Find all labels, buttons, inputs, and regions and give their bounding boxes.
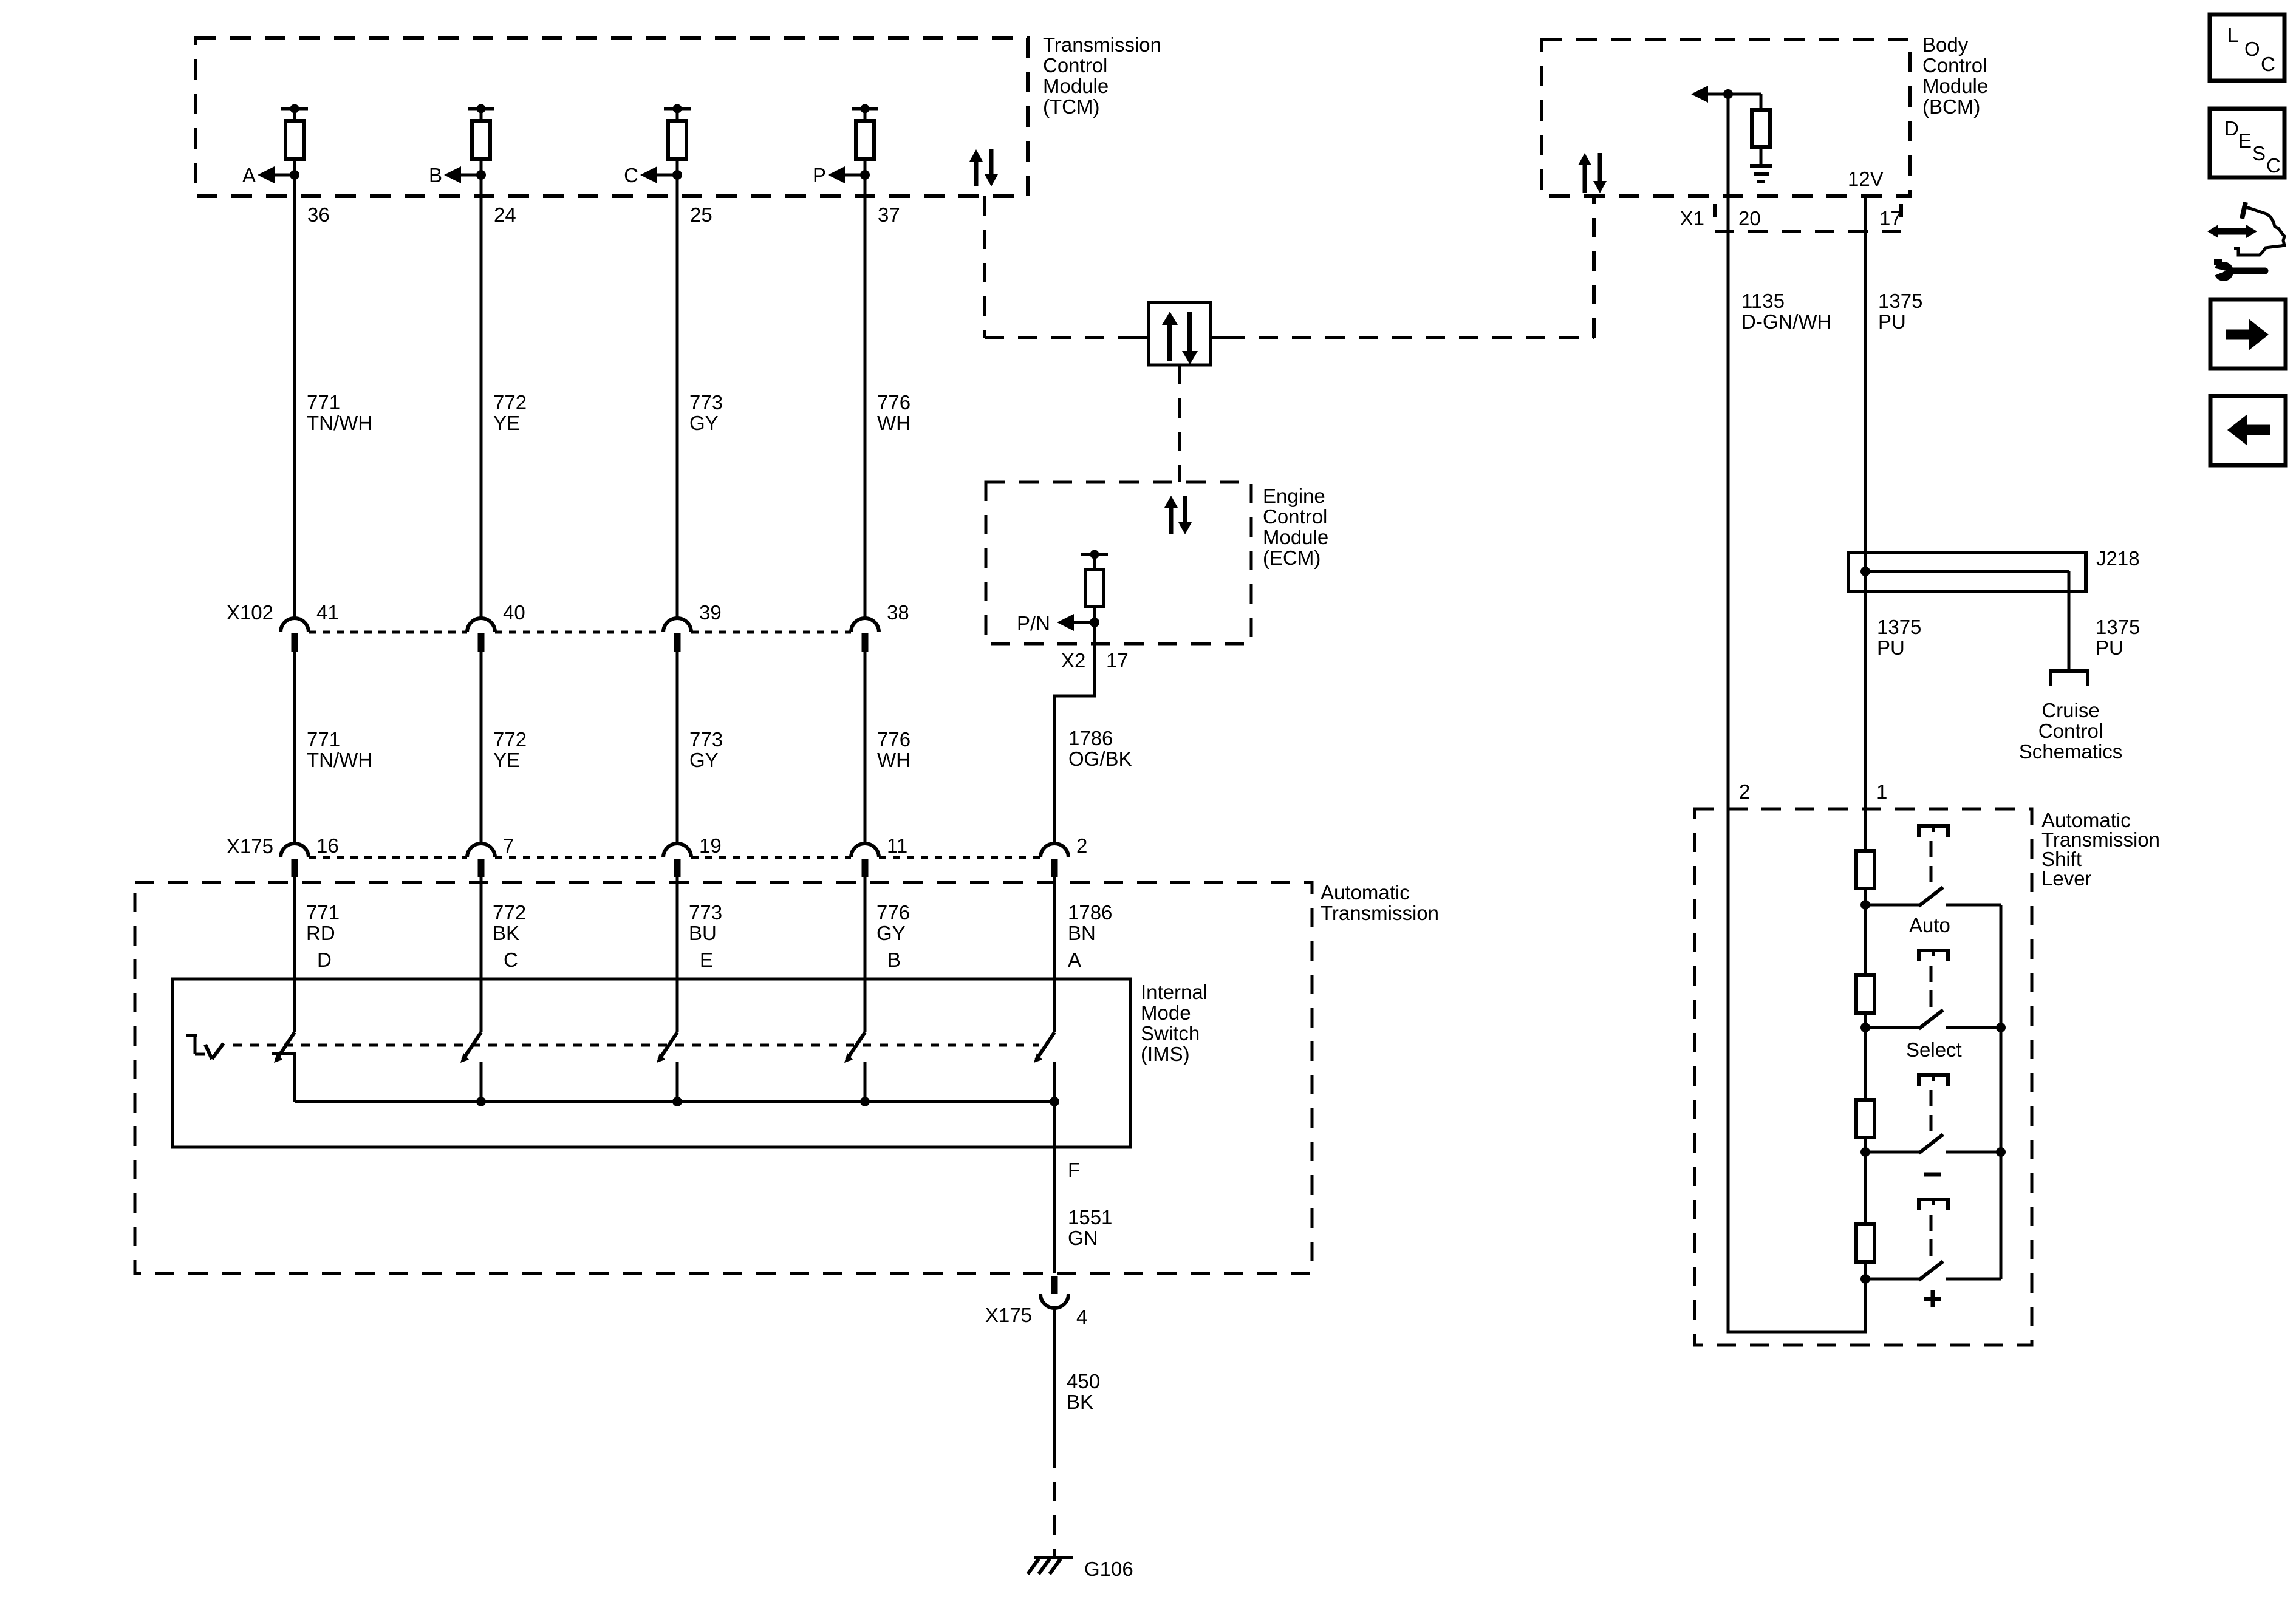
svg-text:Body: Body [1922, 33, 1969, 56]
svg-text:2: 2 [1739, 780, 1750, 803]
svg-text:BK: BK [1067, 1391, 1093, 1413]
svg-text:2: 2 [1076, 834, 1087, 857]
switch S1 (Auto) blade and contacts [1860, 887, 2001, 910]
wire 773 GY segment TCM pin 25 to X102 [677, 175, 723, 619]
resistor R7 (shift lever ladder) [1856, 851, 1874, 888]
svg-text:7: 7 [503, 834, 514, 857]
svg-text:Module: Module [1043, 75, 1109, 97]
svg-text:1: 1 [1876, 780, 1887, 803]
connector X175 cavity 16 (socket arc + pin) [281, 834, 339, 877]
svg-text:17: 17 [1106, 649, 1129, 672]
svg-text:X175: X175 [985, 1304, 1032, 1326]
svg-text:PU: PU [1877, 636, 1905, 659]
svg-text:24: 24 [494, 203, 516, 226]
svg-text:771: 771 [307, 728, 340, 751]
connector X102 dashed tie line [309, 631, 851, 634]
svg-text:P/N: P/N [1017, 612, 1050, 635]
svg-text:37: 37 [878, 203, 900, 226]
wire from R4 to junction at pin P [860, 159, 870, 180]
module box U2 Engine Control Module (ECM), dashed outline [986, 482, 1251, 644]
svg-text:Transmission: Transmission [1321, 902, 1439, 924]
IMS mechanical link dashed line [233, 1044, 1039, 1047]
BCM internal ground symbol [1750, 147, 1772, 182]
junction dot right rail at S3 [1996, 1147, 2006, 1157]
svg-text:17: 17 [1879, 207, 1902, 230]
junction dot bus/wire C [476, 1097, 486, 1106]
switch S3 push-button bracket [1919, 1075, 1948, 1086]
switch block Internal Mode Switch (IMS) solid box [173, 979, 1130, 1147]
svg-text:BK: BK [493, 922, 519, 944]
splice pack J218 [1848, 547, 2140, 591]
svg-text:(IMS): (IMS) [1141, 1043, 1190, 1065]
svg-text:GY: GY [689, 749, 719, 771]
svg-text:BN: BN [1068, 922, 1096, 944]
wire from R1 to junction at pin A [290, 159, 299, 180]
resistor R8 (shift lever ladder) [1856, 975, 1874, 1013]
connector X175 cavity 11 (socket arc + pin) [851, 834, 907, 877]
svg-text:D-GN/WH: D-GN/WH [1741, 310, 1831, 333]
serial data arrows inside BCM [1578, 153, 1607, 193]
label 12V supply node [1848, 168, 1884, 190]
svg-text:772: 772 [493, 728, 527, 751]
svg-text:Module: Module [1263, 526, 1328, 548]
svg-text:771: 771 [307, 391, 340, 414]
svg-text:G106: G106 [1084, 1558, 1133, 1580]
svg-text:1135: 1135 [1741, 290, 1785, 312]
svg-text:RD: RD [306, 922, 335, 944]
svg-text:YE: YE [493, 412, 520, 434]
off-page connector to Cruise Control Schematics [2019, 671, 2123, 763]
resistor R1 (TCM internal pull-up, A signal) [281, 104, 308, 160]
svg-text:Internal: Internal [1141, 981, 1208, 1003]
connector X175 cavity 4 (pin + socket arc) [985, 1276, 1087, 1328]
TCM pin 24 [494, 203, 516, 226]
svg-text:GY: GY [689, 412, 719, 434]
signal arrow B (TCM output) [429, 164, 481, 186]
svg-text:(TCM): (TCM) [1043, 95, 1099, 118]
svg-text:Switch: Switch [1141, 1022, 1200, 1045]
wire 1375 PU segment BCM X1-17 to J218 [1865, 196, 1922, 553]
svg-text:41: 41 [316, 601, 339, 624]
junction dot bus/wire A-F [1050, 1097, 1059, 1106]
icon wrench [2208, 259, 2265, 281]
svg-text:19: 19 [699, 834, 722, 857]
switch S2 push-button bracket [1919, 950, 1948, 961]
svg-text:F: F [1068, 1159, 1080, 1181]
svg-text:1375: 1375 [1878, 290, 1922, 312]
connector X1 label and cavities 20 / 17 [1680, 207, 1902, 230]
svg-text:Control: Control [1922, 54, 1987, 77]
svg-text:Engine: Engine [1263, 485, 1325, 507]
svg-text:25: 25 [690, 203, 712, 226]
wire through J218 with junction [1860, 553, 2069, 591]
svg-text:GY: GY [876, 922, 906, 944]
label Body Control Module (BCM) [1922, 33, 1988, 118]
svg-text:40: 40 [503, 601, 525, 624]
svg-text:B: B [429, 164, 442, 186]
svg-text:D: D [317, 949, 332, 971]
svg-text:38: 38 [887, 601, 909, 624]
svg-text:O: O [2244, 38, 2260, 60]
svg-text:GN: GN [1068, 1227, 1098, 1249]
wire 771 TN/WH segment TCM pin 36 to X102 [295, 175, 372, 619]
svg-text:773: 773 [689, 391, 723, 414]
wire 1135 D-GN/WH segment BCM X1-20 to shift lever pin 2 [1728, 94, 1831, 809]
IMS mechanical actuator symbol (park detent cam) [186, 1035, 224, 1059]
wire 450 BK segment X175-4 to G106 (solid then dashed) [1054, 1307, 1100, 1556]
svg-text:1786: 1786 [1068, 901, 1112, 924]
svg-text:Auto: Auto [1909, 914, 1950, 936]
TCM pin 37 [878, 203, 900, 226]
signal arrow P/N (ECM input) [1017, 612, 1095, 635]
svg-text:1551: 1551 [1068, 1206, 1112, 1229]
connector X175 dashed tie line [309, 856, 1040, 859]
svg-text:Cruise: Cruise [2041, 699, 2099, 721]
svg-text:776: 776 [877, 391, 911, 414]
connector X175 label [227, 835, 273, 857]
svg-text:11: 11 [887, 834, 907, 857]
wire 1786 BN segment X175 pin 2 to IMS pin A [1054, 877, 1112, 1032]
label Transmission Control Module (TCM) [1043, 33, 1161, 118]
connector X175 cavity 19 (socket arc + pin) [663, 834, 722, 877]
svg-text:B: B [887, 949, 901, 971]
svg-text:X102: X102 [227, 601, 273, 624]
icon button DESC [2210, 109, 2284, 177]
connector X175 cavity 2 (socket arc + pin) [1040, 834, 1087, 877]
svg-text:X175: X175 [227, 835, 273, 857]
svg-text:Control: Control [1263, 505, 1327, 528]
svg-text:Select: Select [1906, 1038, 1962, 1061]
svg-text:WH: WH [877, 412, 911, 434]
connector X102 cavity 41 (socket arc + pin) [281, 601, 339, 652]
resistor R10 (shift lever ladder) [1856, 1224, 1874, 1262]
svg-text:S: S [2252, 142, 2266, 165]
svg-text:P: P [813, 164, 826, 186]
shift lever ladder wire segments [1864, 809, 1867, 1279]
svg-text:Automatic: Automatic [1321, 881, 1410, 904]
resistor R5 (ECM internal pull-up, P/N signal) [1081, 550, 1108, 607]
signal arrow P (TCM output) [813, 164, 865, 186]
signal arrow A (TCM output) [242, 164, 295, 186]
svg-text:PU: PU [2096, 636, 2123, 659]
label minus (-) [1924, 1173, 1941, 1177]
wire 772 YE segment TCM pin 24 to X102 [481, 175, 527, 619]
svg-text:Control: Control [1043, 54, 1107, 77]
svg-text:C: C [2261, 53, 2275, 75]
IMS switch contact B [844, 1032, 865, 1102]
junction dot bus/wire E [672, 1097, 682, 1106]
svg-text:X2: X2 [1061, 649, 1085, 672]
svg-text:Control: Control [2038, 720, 2103, 742]
wire 1786 OG/BK segment ECM X2-17 to X175-2 with jog [1053, 622, 1132, 845]
wire from R5 to P/N junction [1090, 607, 1099, 627]
serial data arrows inside TCM (GMLAN) [969, 149, 998, 186]
wire 772 BK segment X175 to IMS pin C [481, 877, 526, 1032]
BCM internal signal arrow and junction [1691, 86, 1733, 103]
TCM pin 36 [307, 203, 330, 226]
IMS common bus wire to pin F [295, 1100, 1054, 1103]
label Internal Mode Switch (IMS) [1141, 981, 1208, 1065]
svg-text:776: 776 [876, 901, 910, 924]
svg-text:39: 39 [699, 601, 722, 624]
svg-text:A: A [1068, 949, 1081, 971]
shift lever left return wire (pin 2 to switch common) [1727, 809, 1867, 1332]
svg-text:YE: YE [493, 749, 520, 771]
wire 771 TN/WH segment X102 to X175 [295, 652, 372, 845]
wire from R2 to junction at pin B [476, 159, 486, 180]
connector X102 cavity 40 (socket arc + pin) [467, 601, 525, 652]
svg-text:TN/WH: TN/WH [307, 749, 372, 771]
connector X175 cavity 7 (socket arc + pin) [467, 834, 514, 877]
switch S3 (minus) blade and contacts [1860, 1134, 2001, 1157]
svg-text:773: 773 [689, 728, 723, 751]
svg-text:E: E [2238, 129, 2252, 152]
wire 776 GY segment X175 to IMS pin B [865, 877, 910, 1032]
wire 773 GY segment X102 to X175 [677, 652, 723, 845]
svg-text:Transmission: Transmission [1043, 33, 1161, 56]
assembly box Automatic Transmission Shift Lever, dashed outline [1695, 809, 2032, 1345]
IMS switch contact E [657, 1032, 677, 1102]
connector X102 cavity 38 (socket arc + pin) [851, 601, 909, 652]
wire 776 WH segment TCM pin 37 to X102 [865, 175, 911, 619]
svg-text:773: 773 [689, 901, 722, 924]
svg-text:776: 776 [877, 728, 911, 751]
resistor R6 (BCM internal) [1752, 110, 1770, 147]
switch S2 (Select) blade and contacts [1860, 1010, 2001, 1032]
junction dot right rail at S2 [1996, 1023, 2006, 1032]
BCM internal wire to pull-up resistor [1728, 94, 1761, 110]
IMS switch contact C [460, 1032, 481, 1102]
assembly box Automatic Transmission, dashed outline [135, 882, 1312, 1273]
svg-text:Schematics: Schematics [2019, 740, 2123, 763]
svg-text:1375: 1375 [2096, 616, 2140, 638]
svg-text:BU: BU [689, 922, 717, 944]
switch S2 dashed push rod [1930, 966, 1933, 1008]
label Automatic Transmission [1321, 881, 1439, 924]
resistor R3 (TCM internal pull-up, C signal) [664, 104, 691, 160]
svg-text:TN/WH: TN/WH [307, 412, 372, 434]
module box U1 Transmission Control Module (TCM), dashed outline [196, 38, 1028, 196]
svg-text:Module: Module [1922, 75, 1988, 97]
ground G106 chassis ground symbol [1028, 1558, 1133, 1580]
resistor R2 (TCM internal pull-up, B signal) [468, 104, 494, 160]
IMS switch contact A [1034, 1032, 1054, 1102]
svg-text:4: 4 [1076, 1306, 1087, 1328]
switch S4 (plus) blade and contacts [1860, 1261, 2001, 1284]
svg-text:1375: 1375 [1877, 616, 1921, 638]
resistor R9 (shift lever ladder) [1856, 1100, 1874, 1137]
connector X102 cavity 39 (socket arc + pin) [663, 601, 722, 652]
wire 1551 GN segment IMS pin F to X175-4 [1054, 1102, 1112, 1273]
svg-text:(ECM): (ECM) [1263, 547, 1321, 569]
connector X1 dashed bracket [1715, 204, 1901, 231]
label Engine Control Module (ECM) [1263, 485, 1328, 569]
connector X102 label [227, 601, 273, 624]
svg-text:L: L [2227, 24, 2238, 46]
shift lever right rail wire [2000, 905, 2003, 1279]
svg-text:Mode: Mode [1141, 1001, 1191, 1024]
switch S3 dashed push rod [1930, 1090, 1933, 1133]
icon button LOC [2210, 15, 2284, 81]
icon button next (right arrow) [2210, 299, 2286, 369]
serial data link node (two-way arrows box) [1134, 302, 1225, 365]
svg-text:WH: WH [877, 749, 911, 771]
IMS switch contact D (with resting contact bar) [272, 1032, 296, 1102]
wire 776 WH segment X102 to X175 [865, 652, 911, 845]
switch S1 push-button bracket [1919, 826, 1948, 837]
svg-text:PU: PU [1878, 310, 1906, 333]
svg-text:C: C [624, 164, 638, 186]
svg-text:J218: J218 [2096, 547, 2140, 570]
svg-text:16: 16 [316, 834, 339, 857]
dashed serial data wire link node to ECM [1178, 365, 1181, 482]
svg-text:450: 450 [1067, 1370, 1100, 1392]
wire from R3 to junction at pin C [672, 159, 682, 180]
resistor R4 (TCM internal pull-up, P signal) [852, 104, 878, 160]
icon vehicle silhouette with two-way arrow [2207, 202, 2284, 255]
svg-text:OG/BK: OG/BK [1068, 748, 1132, 770]
junction dot bus/wire B [860, 1097, 870, 1106]
svg-text:20: 20 [1738, 207, 1761, 230]
label plus (+) [1924, 1290, 1941, 1307]
pin 1 label at shift lever [1876, 780, 1887, 803]
icon button back (left arrow) [2210, 396, 2286, 465]
serial data arrows inside ECM [1164, 496, 1192, 534]
TCM pin 25 [690, 203, 712, 226]
wire 773 BU segment X175 to IMS pin E [677, 877, 722, 1032]
wire 771 RD segment X175 to IMS pin D [295, 877, 340, 1032]
svg-text:X1: X1 [1680, 207, 1704, 230]
switch S4 push-button bracket [1919, 1199, 1948, 1210]
dashed serial data wire link node to BCM [1225, 196, 1594, 338]
dashed serial data wire TCM to link node [985, 196, 1134, 338]
svg-text:(BCM): (BCM) [1922, 95, 1980, 118]
svg-text:A: A [242, 164, 256, 186]
wire 1375 PU branch J218 to cruise control [2069, 571, 2140, 671]
label Automatic Transmission Shift Lever [2041, 809, 2160, 890]
wire 1375 PU segment J218 to shift lever pin 1 [1865, 591, 1921, 809]
signal arrow C (TCM output) [624, 164, 677, 186]
svg-text:E: E [700, 949, 713, 971]
label Auto [1909, 914, 1950, 936]
label Select [1906, 1038, 1962, 1061]
svg-text:772: 772 [493, 901, 526, 924]
switch S1 dashed push rod [1930, 841, 1933, 885]
wire 772 YE segment X102 to X175 [481, 652, 527, 845]
svg-text:C: C [2266, 154, 2281, 177]
svg-text:771: 771 [306, 901, 340, 924]
svg-text:1786: 1786 [1068, 727, 1113, 749]
svg-text:772: 772 [493, 391, 527, 414]
svg-text:C: C [504, 949, 518, 971]
module box U3 Body Control Module (BCM), dashed outline [1542, 39, 1910, 196]
svg-text:Lever: Lever [2041, 867, 2092, 890]
pin 2 label at shift lever [1739, 780, 1750, 803]
svg-text:36: 36 [307, 203, 330, 226]
switch S4 dashed push rod [1930, 1215, 1933, 1259]
svg-text:D: D [2224, 117, 2239, 140]
svg-text:12V: 12V [1848, 168, 1884, 190]
